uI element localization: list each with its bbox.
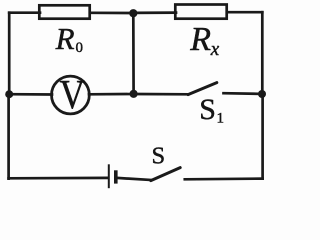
- wire: centre vertical between node A and node D: [132, 13, 135, 94]
- wire: top segment between R0 and node A: [90, 11, 133, 14]
- voltmeter V: [52, 72, 90, 117]
- wire: left edge lower (node C to bottom-left corner): [7, 94, 10, 178]
- label R0: [55, 21, 83, 56]
- svg-text:R: R: [189, 21, 211, 58]
- wire: right edge lower (node B to bottom-right corner): [261, 94, 264, 179]
- node A: junction of R0, Rx and centre branch: [129, 9, 137, 17]
- label Rx: [189, 21, 220, 60]
- wire: top segment from top-left corner to R0: [9, 11, 40, 14]
- wire: S1 branch from blade gap to node B: [224, 92, 263, 95]
- battery (short negative plate): [114, 170, 118, 183]
- wire: right edge upper (corner to node B): [261, 12, 264, 94]
- wire: S1 branch from node D to switch pivot: [134, 93, 188, 96]
- wire: bottom segment from bottom-left corner to battery: [9, 177, 108, 180]
- wire: bottom segment from switch S to bottom-right corner: [185, 177, 263, 180]
- svg-text:S: S: [152, 143, 166, 170]
- svg-text:1: 1: [217, 111, 225, 127]
- resistor R0: [39, 5, 89, 18]
- switch S1 (open blade): [188, 83, 217, 95]
- switch S (open blade): [151, 168, 180, 181]
- wire: top segment from Rx to top-right corner: [227, 11, 262, 14]
- svg-text:S: S: [199, 93, 216, 126]
- wire: voltmeter branch, right lead to node D: [89, 93, 134, 96]
- resistor Rx: [175, 5, 226, 19]
- wire: voltmeter branch, left lead: [9, 93, 52, 96]
- wire: left edge upper (top-left corner to node C): [8, 13, 11, 95]
- label S1: [199, 93, 224, 127]
- svg-text:x: x: [210, 39, 220, 60]
- node D: junction of centre vertical wire and voltmeter branch: [130, 90, 138, 98]
- node C: junction of left edge and voltmeter branch: [5, 90, 13, 98]
- svg-text:0: 0: [76, 40, 84, 56]
- wire: top segment between node A and Rx: [133, 11, 176, 14]
- svg-text:R: R: [55, 21, 75, 56]
- node B: junction of right edge and S1 branch: [258, 90, 266, 98]
- wire: bottom segment from battery to switch S pivot: [117, 178, 152, 180]
- battery (long positive plate): [108, 164, 110, 188]
- svg-text:V: V: [60, 72, 86, 117]
